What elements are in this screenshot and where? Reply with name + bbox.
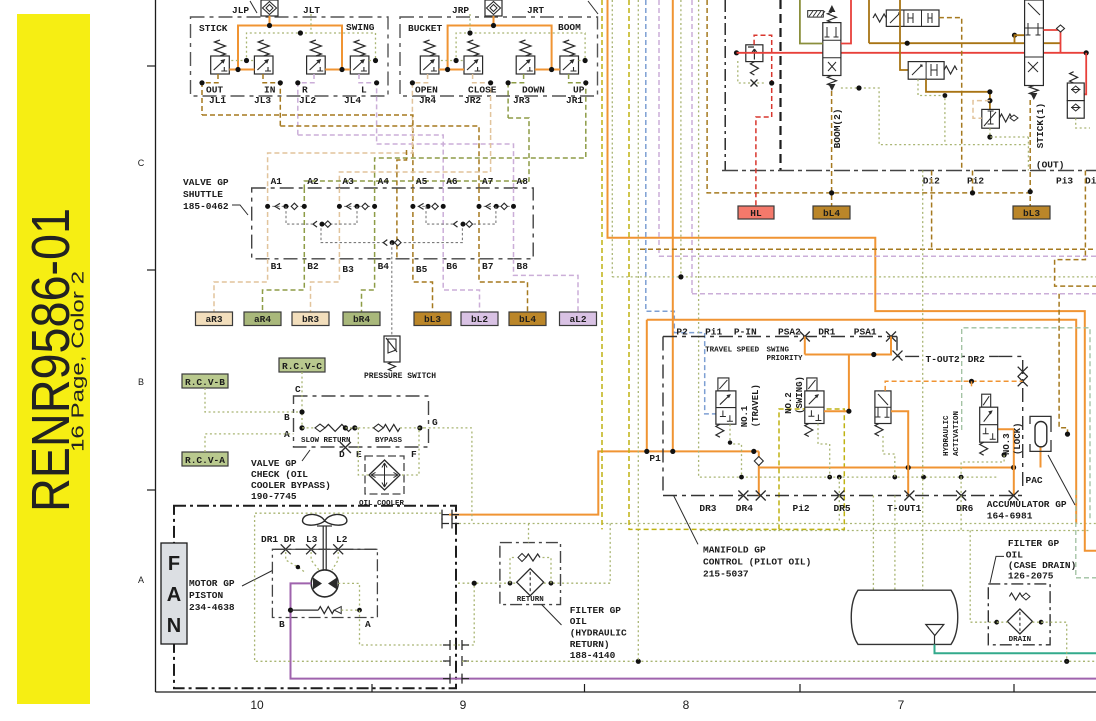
svg-text:PAC: PAC bbox=[1026, 475, 1043, 486]
svg-text:P1: P1 bbox=[649, 453, 661, 464]
pilot valve JR3 DOWN bbox=[516, 56, 535, 74]
svg-text:DR6: DR6 bbox=[956, 503, 973, 514]
relief valve (red dashed circuit) bbox=[746, 45, 763, 62]
svg-text:(TRAVEL): (TRAVEL) bbox=[751, 384, 761, 427]
svg-text:SLOW RETURN: SLOW RETURN bbox=[301, 437, 351, 445]
brown dashed wire BOOM to bL4 bbox=[831, 91, 833, 206]
svg-text:RETURN): RETURN) bbox=[570, 639, 610, 650]
wire JL3 to shuttle A7 (brown) bbox=[280, 126, 479, 188]
green dotted vertical wire x612 bbox=[611, 0, 613, 277]
lavender dashed vertical x659 bbox=[658, 0, 660, 256]
svg-text:JR3: JR3 bbox=[513, 95, 530, 106]
svg-text:BOOM(2): BOOM(2) bbox=[832, 108, 843, 148]
green dotted vertical x681 bbox=[680, 0, 682, 277]
wire JL4 output (lavender) bbox=[359, 74, 377, 144]
orange wire P1 branch with lock diamond bbox=[758, 451, 760, 495]
svg-text:E: E bbox=[356, 449, 362, 460]
label box R.C.V-B bbox=[182, 374, 228, 388]
wire B5 to bL3 bbox=[413, 259, 433, 312]
manifold block bottom border bbox=[663, 495, 1023, 497]
green dotted drain row in manifold bbox=[739, 475, 744, 480]
case drain bypass spring bbox=[1009, 593, 1022, 600]
svg-text:bL4: bL4 bbox=[823, 208, 840, 219]
svg-text:bL3: bL3 bbox=[1023, 208, 1040, 219]
wire RCV-B to port B (green dotted) bbox=[205, 388, 302, 412]
orange supply into fan block bbox=[449, 451, 759, 514]
shuttle valve row2 right bbox=[454, 221, 458, 227]
red wire into BOOM valve right bbox=[841, 0, 851, 44]
case drain filter block border bbox=[988, 584, 1050, 645]
olive solid pilot wire bbox=[800, 0, 823, 44]
svg-text:FILTER GP: FILTER GP bbox=[570, 605, 622, 616]
red dashed wire relief loop bbox=[754, 35, 772, 206]
wire JL4 to shuttle A8 (lavender) bbox=[377, 144, 514, 188]
sage dashed enclosure right bbox=[1076, 490, 1096, 578]
leader line top right bbox=[588, 1, 598, 14]
case drain filter ports bbox=[994, 620, 999, 625]
label box bL3 bbox=[1013, 206, 1050, 219]
solenoid valve NO.1 TRAVEL bbox=[718, 378, 729, 391]
wire RCV-C to port C (green dotted) bbox=[301, 372, 303, 428]
shuttle valve row3 center bbox=[383, 240, 387, 246]
svg-text:IN: IN bbox=[264, 85, 276, 96]
valve gp shuttle block border bbox=[252, 188, 534, 259]
svg-text:R.C.V-C: R.C.V-C bbox=[282, 361, 322, 372]
travel 2-position valve bbox=[908, 62, 944, 80]
sage dashed enclosure top bbox=[962, 328, 1090, 521]
svg-text:NO.2: NO.2 bbox=[784, 392, 794, 414]
svg-text:SHUTTLE: SHUTTLE bbox=[183, 189, 223, 200]
shuttle valve row1 #4 bbox=[479, 205, 514, 207]
shuttle column wire A6-B6 bbox=[442, 188, 444, 259]
svg-text:JL3: JL3 bbox=[254, 95, 271, 106]
wire JR1 output (olive) bbox=[569, 74, 586, 144]
orange pilot supply wire JR bbox=[439, 16, 494, 70]
shuttle column wire A3-B3 bbox=[338, 188, 340, 259]
wire B2 to aR4 bbox=[263, 259, 305, 312]
green dotted drop to filter bbox=[609, 524, 611, 584]
svg-text:JRP: JRP bbox=[452, 5, 469, 16]
svg-text:DRAIN: DRAIN bbox=[1009, 636, 1032, 644]
solenoid valve NO.3 LOCK bbox=[982, 394, 991, 407]
green dotted rail y277 bbox=[612, 276, 1096, 278]
svg-text:A3: A3 bbox=[342, 176, 354, 187]
svg-text:B: B bbox=[284, 412, 290, 423]
svg-text:JR1: JR1 bbox=[566, 95, 583, 106]
pressure reducing valve bbox=[982, 109, 1000, 128]
dark yellow dashed manifold enclosure bbox=[629, 0, 779, 529]
pilot valve JR1 UP bbox=[560, 56, 579, 74]
oil cooler symbol bbox=[365, 456, 404, 494]
svg-text:FILTER GP: FILTER GP bbox=[1008, 538, 1060, 549]
svg-text:(LOCK): (LOCK) bbox=[1013, 423, 1023, 455]
brown dashed rail y249 bbox=[640, 248, 1096, 250]
leader line manifold label bbox=[674, 496, 698, 545]
STICK(1) control valve spool bbox=[1025, 0, 1044, 86]
purple wire motor B port bbox=[291, 583, 1096, 678]
svg-text:P-IN: P-IN bbox=[734, 327, 757, 338]
orange vertical x672 to P1 bbox=[672, 0, 674, 451]
svg-text:R: R bbox=[302, 85, 308, 96]
svg-text:PRESSURE SWITCH: PRESSURE SWITCH bbox=[364, 372, 436, 381]
green dotted stubs below valves bbox=[730, 424, 742, 477]
shuttle column wire A7-B7 bbox=[478, 188, 480, 259]
green dotted wire from motor A port bbox=[338, 583, 359, 610]
red wire to check valves bbox=[1084, 53, 1086, 95]
svg-text:L: L bbox=[361, 85, 367, 96]
svg-text:OIL COOLER: OIL COOLER bbox=[359, 500, 405, 508]
svg-text:B7: B7 bbox=[482, 261, 494, 272]
shuttle valve row1 #1 bbox=[268, 205, 305, 207]
svg-text:JL2: JL2 bbox=[299, 95, 316, 106]
red loop at top right bbox=[1043, 30, 1060, 53]
svg-text:L2: L2 bbox=[336, 534, 348, 545]
svg-text:OPEN: OPEN bbox=[415, 85, 438, 96]
svg-text:JLP: JLP bbox=[232, 5, 249, 16]
brown dashed Di3 step wire bbox=[1055, 171, 1096, 287]
double X marks right edge bbox=[1018, 367, 1028, 377]
pilot valve JR2 CLOSE bbox=[464, 56, 483, 74]
hatched feedback rect bbox=[808, 11, 824, 18]
wire JL1 output (brown) bbox=[202, 74, 218, 115]
pilot valve JL3 IN bbox=[254, 56, 273, 74]
pilot valve JL2 R bbox=[307, 56, 326, 74]
wire RCV-A to port A (green dotted) bbox=[205, 434, 294, 452]
svg-text:DR5: DR5 bbox=[834, 503, 851, 514]
svg-text:OIL: OIL bbox=[570, 616, 587, 627]
yellow title banner bbox=[17, 14, 90, 704]
svg-text:STICK: STICK bbox=[199, 23, 228, 34]
green dotted vertical x698 to drain row bbox=[699, 0, 999, 477]
svg-text:bR4: bR4 bbox=[353, 314, 370, 325]
brown dashed Pi2 wire to manifold bbox=[972, 171, 974, 193]
brown dashed wire bL4 drop bbox=[829, 190, 834, 195]
svg-text:PSA1: PSA1 bbox=[854, 327, 877, 338]
X mark port D bbox=[340, 442, 351, 453]
gray output wire to pressure switch bbox=[391, 243, 393, 336]
wire F from oil cooler (green dotted) bbox=[402, 428, 419, 475]
green dotted motor enclosure box bbox=[255, 513, 446, 661]
wire JR4 output (tan) bbox=[412, 74, 427, 126]
svg-text:SWING: SWING bbox=[767, 346, 790, 354]
svg-text:ACTIVATION: ACTIVATION bbox=[953, 411, 961, 456]
hose connectors at fan block edge bbox=[442, 510, 459, 520]
svg-text:188-4140: 188-4140 bbox=[570, 650, 616, 661]
dash-dot boundary horizontal y170 bbox=[722, 170, 1096, 172]
svg-text:COOLER BYPASS): COOLER BYPASS) bbox=[251, 480, 331, 491]
leader line JLP bbox=[250, 1, 257, 13]
brown dashed wire STICK to bL3 bbox=[1029, 100, 1031, 206]
hose connectors bottom right of fan block bbox=[443, 640, 469, 650]
brown dashed Di2 wire bbox=[931, 171, 933, 250]
filter element (return) bbox=[517, 569, 544, 596]
orange wire to P1 bbox=[646, 320, 648, 452]
svg-text:BOOM: BOOM bbox=[558, 22, 581, 33]
blue dashed pilot wire Pi1 bbox=[646, 0, 716, 414]
lavender dashed vertical x692 bbox=[691, 0, 693, 294]
lavender dashed rail y256 bbox=[659, 255, 1096, 257]
green dotted drop to case drain filter bbox=[970, 531, 997, 623]
green dotted stub into filter top bbox=[528, 524, 530, 543]
leader line case drain label bbox=[990, 556, 1004, 583]
leader line check valve label bbox=[302, 450, 310, 461]
svg-text:aR3: aR3 bbox=[205, 314, 222, 325]
black dash-dot boundary vertical x725 bbox=[724, 0, 726, 171]
svg-text:A4: A4 bbox=[378, 176, 390, 187]
check valve block border bbox=[294, 396, 429, 447]
dark yellow dashed box around NO.2 bbox=[779, 409, 844, 529]
green dotted wire at BOOM bottom bbox=[841, 88, 1029, 145]
pilot valve JL4 L bbox=[350, 56, 369, 74]
svg-text:164-6981: 164-6981 bbox=[987, 511, 1033, 522]
wire B1 to aR3 bbox=[214, 259, 268, 312]
green dotted drain drops to tank bbox=[838, 477, 840, 522]
wire JR3 output (olive) bbox=[508, 74, 523, 118]
red supply line y52.8 bbox=[737, 52, 1087, 54]
motor circle bbox=[311, 570, 338, 597]
svg-text:STICK(1): STICK(1) bbox=[1035, 103, 1046, 149]
svg-text:C: C bbox=[138, 158, 145, 168]
brown dashed Di3 lower branch bbox=[1059, 294, 1067, 434]
FAN label box bbox=[161, 543, 187, 644]
leader line filter label bbox=[542, 605, 562, 625]
pilot control valve block STICK-SWING border bbox=[191, 17, 389, 96]
orange wire NO.2 to PSA1 bbox=[805, 355, 849, 412]
pilot control valve block BUCKET-BOOM border bbox=[400, 17, 598, 96]
wire B4 to bR4 bbox=[362, 259, 375, 312]
tank breather symbol bbox=[926, 625, 944, 636]
shuttle column wire A1-B1 bbox=[267, 188, 269, 259]
svg-text:L3: L3 bbox=[306, 534, 318, 545]
svg-text:VALVE GP: VALVE GP bbox=[183, 177, 229, 188]
svg-text:SWING: SWING bbox=[346, 22, 375, 33]
svg-text:ACCUMULATOR GP: ACCUMULATOR GP bbox=[987, 499, 1067, 510]
khaki wire valve to reducing valve bbox=[926, 79, 990, 109]
orange rail y467 bbox=[759, 467, 1014, 469]
svg-text:bR3: bR3 bbox=[302, 314, 319, 325]
svg-text:BYPASS: BYPASS bbox=[375, 437, 403, 445]
brown dashed vertical x707 bbox=[707, 0, 1030, 193]
svg-text:B3: B3 bbox=[342, 264, 354, 275]
svg-text:Pi2: Pi2 bbox=[793, 503, 810, 514]
BOOM(2) control valve spool bbox=[823, 23, 841, 76]
filter ports (green dotted) bbox=[458, 582, 517, 584]
shuttle valve row2 left bbox=[313, 221, 317, 227]
shuttle column wire A8-B8 bbox=[513, 188, 515, 259]
manifold border step bbox=[897, 337, 998, 357]
signal label box aR4 bbox=[244, 312, 281, 326]
lavender dashed rail y294 bbox=[692, 293, 1096, 295]
wire B3 to bR3 bbox=[311, 259, 340, 312]
svg-text:R.C.V-A: R.C.V-A bbox=[185, 455, 225, 466]
signal label box aL2 bbox=[560, 312, 597, 326]
shuttle valve row1 #3 bbox=[413, 205, 443, 207]
svg-text:F: F bbox=[168, 553, 180, 575]
X mark below PSA1 bbox=[893, 351, 903, 361]
tan dashed stub at reducing valve bbox=[973, 101, 990, 119]
svg-text:(HYDRAULIC: (HYDRAULIC bbox=[570, 628, 627, 639]
svg-text:PRIORITY: PRIORITY bbox=[767, 355, 804, 363]
svg-text:A: A bbox=[167, 584, 181, 606]
column tick marks bbox=[371, 684, 373, 692]
svg-text:DR3: DR3 bbox=[699, 503, 716, 514]
svg-text:OUT: OUT bbox=[206, 85, 223, 96]
green dotted drain wires inside motor block bbox=[286, 552, 306, 573]
dark yellow dashed vertical wire x602 bbox=[601, 0, 603, 529]
svg-text:CONTROL (PILOT OIL): CONTROL (PILOT OIL) bbox=[703, 557, 811, 568]
wire E to oil cooler (green dotted) bbox=[358, 428, 369, 475]
green dotted relief drain bbox=[738, 61, 766, 83]
X marks manifold bottom ports bbox=[738, 491, 748, 501]
PAC accumulator capsule bbox=[1030, 416, 1051, 432]
svg-text:DOWN: DOWN bbox=[522, 85, 545, 96]
svg-text:C: C bbox=[295, 384, 301, 395]
port line above motor bbox=[275, 548, 378, 550]
long green dotted return rail bbox=[462, 660, 1096, 662]
bypass check valve and spring bbox=[358, 427, 373, 429]
svg-text:DR1 DR: DR1 DR bbox=[261, 534, 296, 545]
svg-text:aR4: aR4 bbox=[254, 314, 271, 325]
svg-text:B8: B8 bbox=[517, 261, 529, 272]
svg-text:DR4: DR4 bbox=[736, 503, 753, 514]
label box bL4 bbox=[813, 206, 850, 219]
svg-text:T-OUT1: T-OUT1 bbox=[887, 503, 922, 514]
svg-text:F: F bbox=[411, 449, 417, 460]
svg-text:A2: A2 bbox=[307, 176, 319, 187]
svg-text:Pi1: Pi1 bbox=[705, 327, 722, 338]
pilot valve JR4 OPEN bbox=[420, 56, 439, 74]
svg-text:bL2: bL2 bbox=[471, 314, 488, 325]
svg-text:P2: P2 bbox=[676, 327, 688, 338]
svg-text:JLT: JLT bbox=[303, 5, 320, 16]
wire B7 to bL4 bbox=[479, 259, 528, 312]
svg-text:R.C.V-B: R.C.V-B bbox=[185, 377, 225, 388]
shuttle valve row1 #2 bbox=[339, 205, 374, 207]
wire JL1 to shuttle A5 (brown) bbox=[202, 115, 413, 188]
svg-text:DR1: DR1 bbox=[818, 327, 835, 338]
green dotted wire cooler G to return bbox=[471, 432, 473, 524]
svg-text:190-7745: 190-7745 bbox=[251, 491, 297, 502]
svg-text:bL4: bL4 bbox=[519, 314, 536, 325]
leader line shuttle label bbox=[232, 205, 248, 215]
pressure switch symbol bbox=[384, 336, 400, 362]
green dotted tank return wire JLT bbox=[229, 14, 311, 61]
fan blades symbol bbox=[303, 514, 347, 525]
svg-text:DR2: DR2 bbox=[968, 354, 985, 365]
X mark PSA2 bbox=[800, 332, 810, 342]
wire JL2 to shuttle A6 (lavender) bbox=[298, 135, 443, 188]
svg-text:8: 8 bbox=[683, 698, 690, 712]
shuttle column wire A5-B5 bbox=[412, 188, 414, 259]
signal label box bL3 bbox=[414, 312, 451, 326]
svg-text:(OUT): (OUT) bbox=[1036, 160, 1065, 171]
fan motor block border bbox=[174, 506, 456, 689]
svg-text:B: B bbox=[279, 619, 285, 630]
wire JR1 to shuttle A4 (olive) bbox=[375, 144, 586, 188]
pilot valve center (2 position) bbox=[875, 391, 891, 424]
X marks DR1 DR L3 L2 bbox=[281, 544, 291, 554]
khaki wire to STICK valve bbox=[1015, 35, 1025, 43]
label box R.C.V-C bbox=[279, 358, 325, 372]
svg-text:TRAVEL SPEED: TRAVEL SPEED bbox=[705, 346, 760, 354]
svg-text:A: A bbox=[365, 619, 371, 630]
svg-text:NO.1: NO.1 bbox=[740, 405, 750, 427]
svg-text:MANIFOLD GP: MANIFOLD GP bbox=[703, 544, 766, 555]
signal label box bR3 bbox=[292, 312, 329, 326]
leader line motor label bbox=[242, 571, 272, 587]
label T-OUT2 bbox=[922, 353, 960, 364]
svg-text:B1: B1 bbox=[271, 261, 283, 272]
wire JR2 output (tan) bbox=[473, 74, 491, 135]
row tick marks bbox=[147, 65, 156, 67]
gray link row2 to row3 bbox=[321, 228, 383, 242]
orange wire PAC capsule drop bbox=[1040, 447, 1042, 468]
svg-text:HL: HL bbox=[750, 208, 762, 219]
svg-text:A5: A5 bbox=[416, 176, 428, 187]
swing priority valve (3 section) bbox=[886, 10, 939, 26]
green dotted vertical to return rail bbox=[637, 0, 639, 661]
svg-text:HYDRAULIC: HYDRAULIC bbox=[943, 415, 951, 456]
slow return check valve and spring bbox=[299, 425, 304, 430]
orange pilot supply wire JL bbox=[229, 16, 269, 70]
pump symbol JLP (diamond in box) bbox=[261, 0, 278, 16]
svg-text:16 Page, Color 2: 16 Page, Color 2 bbox=[68, 271, 88, 452]
svg-text:A: A bbox=[138, 575, 144, 585]
green dotted rail y530 bbox=[700, 530, 1090, 532]
label box R.C.V-A bbox=[182, 452, 228, 466]
svg-text:N: N bbox=[167, 615, 181, 637]
svg-text:CHECK (OIL: CHECK (OIL bbox=[251, 469, 308, 480]
signal label box bL4 bbox=[509, 312, 546, 326]
manifold block left border bbox=[662, 337, 664, 491]
svg-text:185-0462: 185-0462 bbox=[183, 201, 229, 212]
X mark PSA1 bbox=[886, 332, 896, 342]
pilot valve JL1 OUT bbox=[211, 56, 230, 74]
svg-text:B4: B4 bbox=[378, 261, 390, 272]
leader line PAC bbox=[1048, 455, 1075, 505]
label DR2 bbox=[965, 353, 987, 364]
green dotted return line at fan top bbox=[459, 523, 1096, 525]
svg-text:(CASE DRAIN): (CASE DRAIN) bbox=[1008, 560, 1076, 571]
svg-text:10: 10 bbox=[250, 698, 264, 712]
wire JR4 to shuttle A1 (tan) bbox=[268, 126, 413, 188]
svg-text:CLOSE: CLOSE bbox=[468, 85, 497, 96]
frame bottom border line bbox=[156, 691, 1096, 693]
check valve pair bbox=[1067, 83, 1084, 101]
orange loop wire row y319 bbox=[647, 320, 1076, 524]
wire port G to right (green dotted) bbox=[424, 427, 472, 429]
wire B8 to aL2 bbox=[514, 259, 579, 312]
svg-text:PSA2: PSA2 bbox=[778, 327, 801, 338]
brown dashed from swing priority valve bbox=[939, 18, 962, 170]
svg-text:NO.3: NO.3 bbox=[1002, 433, 1012, 455]
svg-text:UP: UP bbox=[573, 85, 585, 96]
signal label box aR3 bbox=[196, 312, 233, 326]
wire JL2 output (lavender) bbox=[298, 74, 314, 135]
svg-text:B: B bbox=[138, 377, 144, 387]
case drain filter element bbox=[1007, 609, 1032, 634]
green dotted at check valves bbox=[1076, 118, 1090, 128]
green dotted tank return wire JRT bbox=[439, 14, 470, 61]
signal label box bL2 bbox=[461, 312, 498, 326]
orange wire NO.3 to rail bbox=[998, 429, 1014, 495]
svg-text:Pi2: Pi2 bbox=[967, 176, 984, 187]
orange dashed activation wire bbox=[885, 381, 1023, 391]
svg-text:Pi3: Pi3 bbox=[1056, 176, 1073, 187]
green dotted drain from reducing valve bbox=[990, 128, 1029, 137]
svg-text:234-4638: 234-4638 bbox=[189, 602, 235, 613]
svg-text:A6: A6 bbox=[446, 176, 458, 187]
